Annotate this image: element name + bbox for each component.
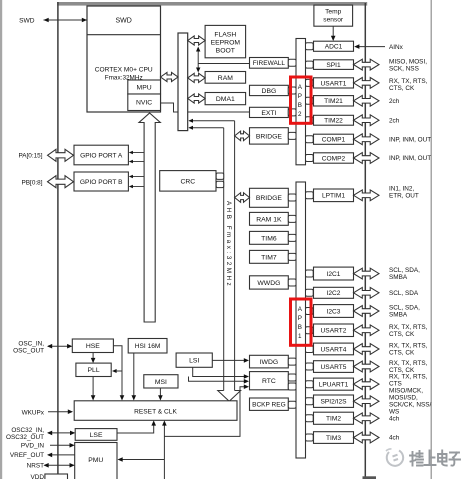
svg-text:Temp: Temp [325, 9, 341, 16]
svg-text:OSC_IN,: OSC_IN, [18, 340, 44, 347]
svg-text:PLL: PLL [88, 367, 100, 374]
svg-text:MSI: MSI [155, 379, 167, 386]
svg-text:TIM7: TIM7 [261, 254, 277, 261]
svg-text:SPI2/I2S: SPI2/I2S [320, 399, 347, 406]
svg-text:DMA1: DMA1 [216, 96, 235, 103]
svg-text:USART1: USART1 [321, 80, 347, 87]
svg-text:USART2: USART2 [321, 328, 347, 335]
svg-text:RX, TX, RTS,: RX, TX, RTS, [389, 360, 428, 367]
svg-text:INP, INM, OUT: INP, INM, OUT [389, 155, 431, 162]
svg-text:INP, INM, OUT: INP, INM, OUT [389, 136, 431, 143]
svg-text:RAM: RAM [218, 75, 233, 82]
svg-text:EEPROM: EEPROM [211, 40, 241, 47]
svg-text:HSI 16M: HSI 16M [135, 343, 161, 350]
svg-text:CRC: CRC [180, 178, 195, 185]
svg-text:SCL, SDA,: SCL, SDA, [389, 267, 420, 274]
svg-text:SCK, NSS: SCK, NSS [389, 65, 419, 72]
svg-text:B: B [298, 324, 302, 331]
svg-text:SWD: SWD [116, 18, 132, 25]
svg-text:COMP2: COMP2 [322, 155, 346, 162]
svg-text:COMP1: COMP1 [322, 137, 346, 144]
svg-text:AINx: AINx [389, 44, 404, 51]
svg-text:I2C2: I2C2 [327, 290, 341, 297]
svg-text:I2C3: I2C3 [327, 308, 341, 315]
svg-text:TIM22: TIM22 [324, 118, 343, 125]
svg-text:RX, TX, RTS,: RX, TX, RTS, [389, 374, 428, 381]
svg-text:BRIDGE: BRIDGE [256, 195, 283, 202]
svg-text:2: 2 [298, 111, 302, 118]
svg-text:GPIO PORT B: GPIO PORT B [80, 179, 123, 186]
svg-text:SWD: SWD [19, 18, 35, 25]
svg-text:GPIO PORT A: GPIO PORT A [80, 152, 123, 159]
svg-text:MPU: MPU [137, 85, 152, 92]
svg-text:AHB Fmax:32MHz: AHB Fmax:32MHz [225, 201, 232, 288]
svg-text:SPI1: SPI1 [326, 62, 341, 69]
svg-text:TIM2: TIM2 [326, 416, 341, 423]
svg-text:BOOT: BOOT [216, 48, 235, 55]
svg-text:2ch: 2ch [389, 117, 400, 124]
svg-text:TIM21: TIM21 [324, 98, 343, 105]
svg-text:RESET & CLK: RESET & CLK [134, 408, 177, 415]
svg-text:EXTI: EXTI [261, 110, 276, 117]
svg-text:CORTEX M0+ CPU: CORTEX M0+ CPU [95, 67, 153, 74]
svg-text:WWDG: WWDG [257, 280, 280, 287]
svg-text:CTS, CK: CTS, CK [389, 85, 415, 92]
svg-text:P: P [298, 93, 302, 100]
svg-text:SMBA: SMBA [389, 274, 408, 281]
svg-text:IN1, IN2,: IN1, IN2, [389, 186, 414, 193]
svg-text:RX, TX, RTS,: RX, TX, RTS, [389, 324, 428, 331]
svg-text:MISO, MOSI,: MISO, MOSI, [389, 58, 427, 65]
svg-text:B: B [298, 102, 302, 109]
svg-text:USART5: USART5 [321, 364, 347, 371]
svg-text:I2C1: I2C1 [327, 271, 341, 278]
svg-text:OSC_OUT: OSC_OUT [13, 348, 44, 355]
svg-text:IWDG: IWDG [260, 359, 279, 366]
svg-text:CTS, CK: CTS, CK [389, 350, 415, 357]
svg-text:BRIDGE: BRIDGE [256, 133, 283, 140]
svg-text:sensor: sensor [323, 17, 344, 24]
svg-text:DBG: DBG [262, 88, 277, 95]
svg-text:CTS, CK: CTS, CK [389, 331, 415, 338]
svg-text:LSI: LSI [189, 358, 199, 365]
svg-text:SCK/CK, NSS/: SCK/CK, NSS/ [389, 402, 431, 409]
svg-text:VREF_OUT: VREF_OUT [10, 452, 44, 459]
svg-text:PMU: PMU [88, 457, 103, 464]
svg-text:NRST: NRST [27, 463, 44, 470]
svg-text:TIM3: TIM3 [326, 435, 341, 442]
svg-text:PVD_IN: PVD_IN [21, 443, 44, 450]
svg-text:RTC: RTC [262, 378, 276, 385]
svg-text:FIREWALL: FIREWALL [253, 60, 286, 67]
svg-text:TIM6: TIM6 [261, 235, 277, 242]
svg-text:USART4: USART4 [321, 346, 347, 353]
svg-text:VDD: VDD [31, 474, 45, 479]
svg-text:LPTIM1: LPTIM1 [322, 193, 345, 200]
svg-text:SCL, SDA: SCL, SDA [389, 290, 419, 297]
svg-text:NVIC: NVIC [136, 100, 152, 107]
svg-text:LSE: LSE [90, 432, 103, 439]
svg-text:2ch: 2ch [389, 98, 400, 105]
svg-text:ADC1: ADC1 [325, 44, 343, 51]
svg-text:RX, TX, RTS,: RX, TX, RTS, [389, 78, 428, 85]
svg-text:SCL, SDA,: SCL, SDA, [389, 305, 420, 312]
svg-text:HSE: HSE [86, 343, 100, 350]
svg-text:1: 1 [298, 333, 302, 340]
svg-text:WKUPx: WKUPx [22, 409, 45, 416]
svg-text:RX, TX, RTS,: RX, TX, RTS, [389, 343, 428, 350]
svg-text:MOSI/SD,: MOSI/SD, [389, 395, 418, 402]
svg-text:WS: WS [389, 409, 399, 416]
svg-text:BCKP REG: BCKP REG [252, 402, 285, 409]
svg-text:OSC32_IN,: OSC32_IN, [11, 427, 44, 434]
svg-text:OSC32_OUT: OSC32_OUT [6, 434, 44, 441]
svg-text:RAM 1K: RAM 1K [256, 216, 282, 223]
svg-text:SMBA: SMBA [389, 312, 408, 319]
svg-text:4ch: 4ch [389, 435, 400, 442]
svg-text:4ch: 4ch [389, 416, 400, 423]
svg-text:PA[0:15]: PA[0:15] [18, 153, 42, 160]
svg-text:LPUART1: LPUART1 [319, 382, 349, 389]
svg-text:ETR, OUT: ETR, OUT [389, 193, 419, 200]
svg-text:FLASH: FLASH [214, 32, 236, 39]
svg-text:MISO/MCK,: MISO/MCK, [389, 388, 423, 395]
svg-text:P: P [298, 315, 302, 322]
svg-text:PB[0:8]: PB[0:8] [22, 179, 43, 186]
